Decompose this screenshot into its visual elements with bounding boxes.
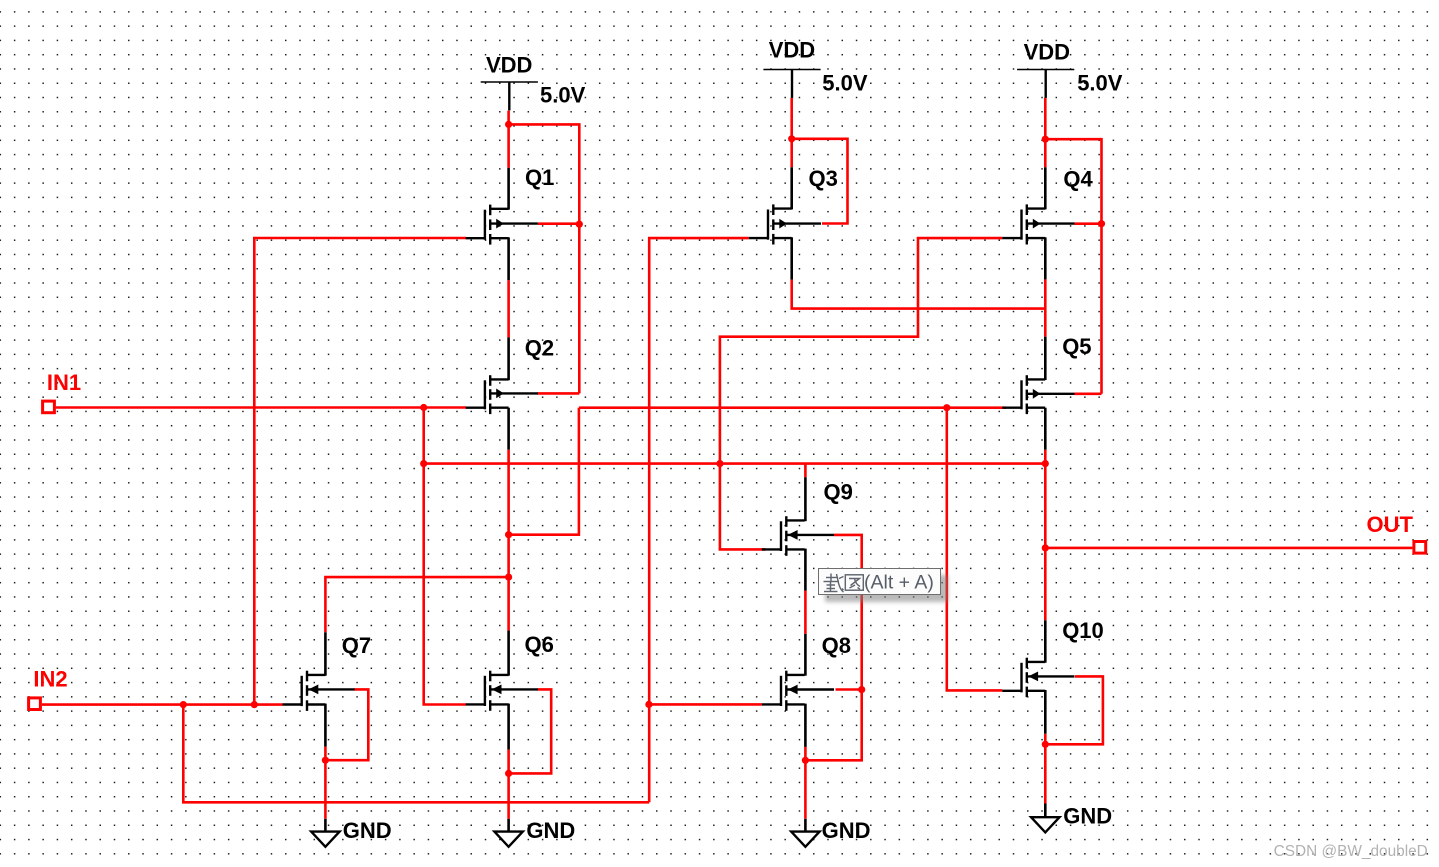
wire VDD3 branch to Q4 body (1075, 222, 1102, 225)
wire Q9 body down to Q8 source (805, 535, 861, 760)
pin Q10 source (1044, 690, 1047, 734)
junction Q8 body on body rail (858, 686, 865, 693)
transistor Q5 (PMOS) (1002, 375, 1074, 414)
junction VDD net at Q3 (788, 135, 795, 142)
transistor Q2 (PMOS) (466, 375, 538, 414)
wire IN2 branch down-right (183, 705, 649, 803)
ground symbol under Q7 (311, 832, 339, 847)
transistor Q10 (NMOS) (1002, 658, 1074, 698)
wire Q4 source to Q5 drain (1044, 279, 1047, 336)
wire Q2 source down to Q6 drain (507, 450, 510, 631)
junction node3 rail left end (420, 460, 427, 467)
transistor Q9 (NMOS) (762, 516, 834, 556)
wire VDD net right branch down to Q2 body row (509, 124, 580, 393)
pin Q7 source (324, 704, 327, 747)
wire Q7 source to GND (324, 747, 327, 819)
pin Q5 drain (1044, 337, 1047, 380)
ground symbol under Q6 (494, 832, 522, 847)
tooltip glyph 图 (845, 575, 863, 590)
wire node3 horizontal rail (424, 462, 1046, 465)
power VDD symbol at Q1 (481, 81, 538, 83)
pin Q2 drain (507, 337, 510, 380)
ground stub Q8 (804, 819, 807, 832)
pin Q6 source (507, 704, 510, 750)
wire IN2 branch to Q8 gate (649, 703, 762, 706)
ground symbol under Q10 (1031, 817, 1059, 832)
ground symbol under Q8 (791, 832, 819, 847)
wire Q9 source to Q8 drain (804, 591, 807, 634)
wire VDD3 branch to Q5 body (1075, 392, 1102, 395)
pin Q8 drain (804, 634, 807, 676)
wire Q8 body to body rail (836, 688, 862, 691)
power VDD symbol at Q3 (763, 69, 820, 71)
wire Q10 source to GND (1044, 734, 1047, 804)
transistor Q4 (PMOS) (1002, 204, 1074, 244)
junction IN2 left branch (180, 701, 187, 708)
wire IN1 branch down to Q6 gate (424, 408, 466, 705)
port OUT (1414, 542, 1426, 554)
wire VDD3 to Q4 drain (1044, 98, 1047, 168)
pin Q3 drain (790, 167, 793, 209)
ground stub Q10 (1044, 804, 1047, 818)
pin Q8 source (804, 704, 807, 747)
transistor Q3 (PMOS) (749, 204, 821, 244)
ground stub Q6 (507, 819, 510, 832)
wire VDD3 branch down body rail (1045, 139, 1101, 394)
svg-text:(Alt + A): (Alt + A) (864, 572, 934, 594)
pin Q9 drain (804, 477, 807, 521)
power VDD symbol at Q4 (1017, 69, 1074, 71)
wire Q7 body to source loop (325, 689, 368, 760)
junction node3 rail to Q9 gate (716, 460, 723, 467)
transistor Q1 (PMOS) (466, 205, 538, 245)
junction IN2 branch at Q8 gate (645, 701, 652, 708)
wire Q6 body to source loop (509, 689, 552, 773)
transistor Q6 (NMOS) (466, 671, 538, 711)
transistor Q7 (NMOS) (283, 671, 355, 711)
junction IN1 branch (420, 404, 427, 411)
pin Q1 source (507, 237, 510, 280)
junction node2 rail to Q10 gate (943, 404, 950, 411)
wire IN2 branch up to Q3 gate (649, 238, 749, 802)
wire IN2 to Q7 gate (42, 703, 283, 706)
wire stage-2 gate rail (node2) to Q5 gate (579, 406, 1006, 409)
wire node2 branch up to stage-2 gate rail (509, 408, 579, 535)
wire VDD2 to Q3 drain (790, 98, 793, 168)
junction OUT node (1042, 544, 1049, 551)
junction VDD net at Q1 (505, 121, 512, 128)
wire VDD branch to Q1 body (538, 222, 579, 225)
junction Q6 source-body tie (505, 770, 512, 777)
pin Q3 source (790, 237, 793, 279)
wire Q4 gate to node3 rail (720, 238, 1002, 464)
pin Q4 source (1044, 237, 1047, 279)
port IN1 (43, 401, 55, 413)
pin Q4 drain (1044, 167, 1047, 209)
wire node3 to Q9 gate (720, 464, 766, 550)
pin Q1 drain (507, 168, 510, 210)
junction Q10 source-body tie (1042, 741, 1049, 748)
port IN2 (29, 698, 41, 710)
junction Q7 source-body tie (322, 757, 329, 764)
wire node3 stub to Q9 drain (804, 464, 807, 478)
wire VDD branch to Q2 body (537, 392, 579, 395)
pin Q2 source (507, 408, 510, 450)
junction Q8 source-body tie (802, 757, 809, 764)
junction node2 at Q2 source (505, 531, 512, 538)
watermark CSDN @BW_doubleD (1274, 844, 1428, 859)
pin Q7 drain (324, 632, 327, 675)
junction node2 to Q7 drain (505, 574, 512, 581)
junction VDD net at Q4 (1042, 136, 1049, 143)
wire VDD2 branch to Q3 body (792, 139, 848, 224)
wire Q8 source to GND (804, 747, 807, 819)
junction Q4 body branch (1098, 220, 1105, 227)
junction Q1 body branch (576, 221, 583, 228)
wire IN1 to Q2 gate (56, 406, 466, 409)
pin Q9 source (804, 549, 807, 591)
wire VDD net to Q1 drain pin (507, 111, 510, 168)
transistor Q8 (NMOS) (762, 671, 834, 711)
wire Q3 source to Q4 source node (792, 280, 1046, 309)
wire Q1 source to Q2 drain (507, 280, 510, 337)
junction IN2 to Q1 gate branch (251, 701, 258, 708)
wire node2 branch to Q7 drain (325, 577, 508, 632)
wire node2 rail down to Q10 gate (947, 408, 1003, 691)
pin Q5 source (1044, 408, 1047, 450)
tooltip 截图(Alt + A) (818, 568, 940, 595)
wire OUT node to OUT port (1045, 547, 1412, 550)
junction node3 rail at Q5 source (1042, 460, 1049, 467)
wire IN2 branch up to Q1 gate (254, 238, 466, 705)
pin Q10 drain (1044, 620, 1047, 662)
pin Q6 drain (507, 631, 510, 676)
wire Q5 source to Q10 drain (OUT node) (1044, 450, 1047, 621)
wire Q10 body to source loop (1045, 676, 1103, 744)
wire Q6 source to GND (507, 750, 510, 819)
ground stub Q7 (324, 819, 327, 832)
tooltip glyph 截 (824, 574, 844, 593)
